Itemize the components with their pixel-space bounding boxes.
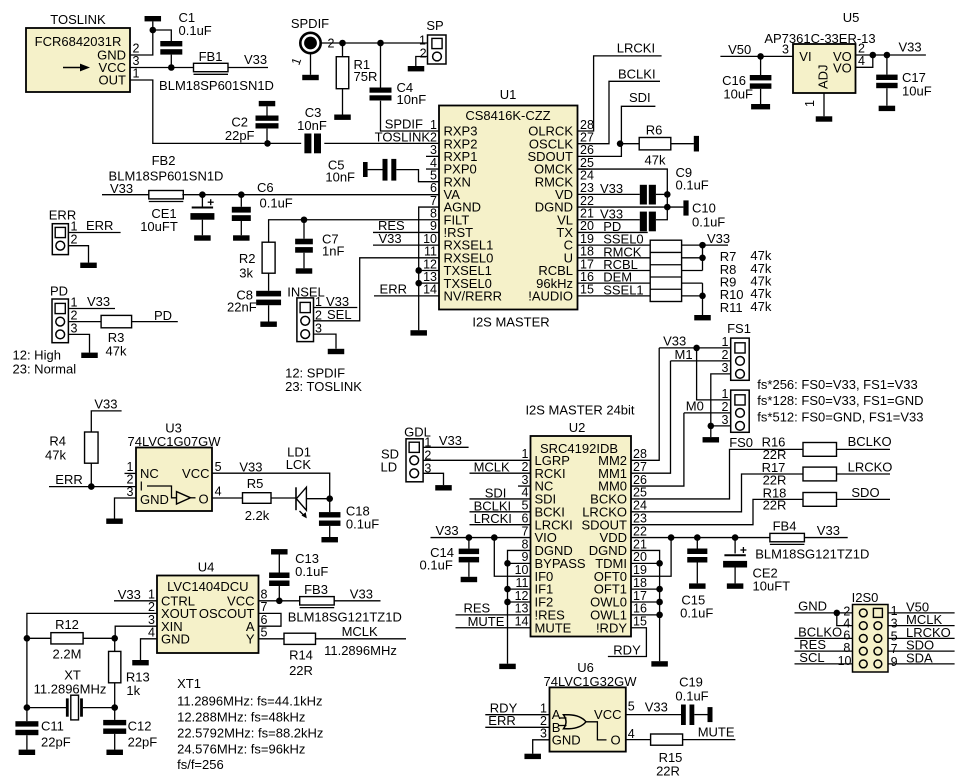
svg-text:SDA: SDA [906, 650, 933, 665]
svg-text:V33: V33 [87, 294, 110, 309]
wire U1 pin8 FILT to R2 [269, 220, 439, 242]
U1 pin 15 label !AUDIO [528, 288, 573, 303]
net label ERR at U1 pin14 [380, 282, 407, 297]
U1 pin 8 label FILT [444, 212, 470, 227]
net label V50 [728, 42, 751, 57]
junction crystal left [24, 704, 31, 711]
junction CE2 on VDD [732, 534, 739, 541]
pin number 3 of PD conn [71, 321, 78, 335]
net label SCL at I2S0 [799, 650, 824, 665]
U1 pin 28 label OLRCK [528, 124, 573, 139]
svg-text:5: 5 [628, 699, 635, 713]
wire U2 pin23 SDOUT up to R18 [631, 499, 803, 524]
net label RES at U2 pin13 [464, 600, 491, 615]
FB4 part number [755, 547, 869, 562]
wire U1 pin14 ERR [374, 295, 439, 297]
net label RDY at U2 pin15 [613, 643, 641, 658]
svg-text:1: 1 [722, 387, 729, 401]
pin number 1 of U5 rotated [803, 100, 817, 107]
wire FB3 to V33 [334, 600, 380, 602]
resistor label R9 [720, 274, 737, 289]
ground below C7 [303, 253, 305, 269]
U1 pin number 4 [430, 156, 437, 170]
U1 pin 21 label VL [557, 212, 573, 227]
pin number 1 of M0 [722, 387, 729, 401]
U6 gate output wire [586, 722, 607, 740]
capacitor C5 [383, 159, 388, 181]
svg-text:3: 3 [782, 43, 789, 57]
ground below R1 [342, 89, 344, 115]
junction rail row12 [504, 599, 511, 606]
wire R3 to PD net [132, 321, 178, 323]
wire PD pin1 to V33 [68, 308, 115, 310]
U4 pin number 6 [261, 613, 268, 627]
junction FS1 pin1 to M0 pin1 [693, 345, 700, 352]
wire I2S0 right row 2 MCLK [888, 625, 955, 627]
junction V33 rail row19 [699, 242, 706, 249]
pin number 2 of I2S0 [843, 604, 850, 618]
svg-text:4: 4 [148, 626, 155, 640]
U3 part name 74LVC1G07GW [128, 434, 222, 449]
net label LRCKO at I2S0 [906, 625, 951, 640]
capacitor C8 [256, 291, 281, 297]
svg-text:12.288MHz: fs=48kHz: 12.288MHz: fs=48kHz [177, 710, 305, 725]
svg-text:SPDIF: SPDIF [291, 16, 329, 31]
pin number 2 of GDL [424, 448, 431, 462]
junction OFT0 riser on VDD [668, 534, 675, 541]
U1 pin 16 label 96kHz [536, 276, 573, 291]
svg-text:ERR: ERR [488, 713, 515, 728]
U1 pin 9 label !RST [444, 225, 474, 240]
net label V33 at FB1 [244, 52, 267, 67]
net label MUTE at U2 pin14 [468, 614, 505, 629]
wire C5 to U1 pin5 [396, 170, 439, 182]
wire TOSLINK pin3 VCC to FB1 [130, 67, 194, 69]
net label SSEL1 [603, 282, 643, 297]
I2S0 left pin circle row 5 [859, 660, 867, 668]
svg-text:fs*256: FS0=V33, FS1=V33: fs*256: FS0=V33, FS1=V33 [757, 377, 917, 392]
U1 pin number 23 [580, 181, 594, 195]
svg-text:4: 4 [215, 485, 222, 499]
junction GND to pin4 [834, 610, 841, 617]
I2S0 left pin circle row 3 [859, 635, 867, 643]
wire M0 to pin2 [684, 412, 731, 414]
svg-text:14: 14 [515, 615, 529, 629]
U1 pin 13 label TXSEL0 [444, 276, 492, 291]
I2S0 right pin circle row 4 [874, 647, 882, 655]
pin number 2 of SPDIF [328, 37, 335, 51]
ground below C12 [114, 734, 116, 750]
ground below C15 [696, 563, 698, 584]
svg-text:1: 1 [71, 296, 78, 310]
junction CE1/VA line [199, 191, 206, 198]
regulator U5 body [793, 44, 856, 93]
U2 pin number 21 [633, 537, 647, 551]
capacitor C7 [303, 220, 305, 239]
svg-text:1: 1 [722, 335, 729, 349]
resistor R5 [243, 493, 272, 504]
I2S0 left pin circle row 4 [859, 647, 867, 655]
wire U5 pin1 ADJ to ground [823, 93, 825, 116]
capacitor C4 [380, 43, 382, 88]
svg-text:!RDY: !RDY [596, 620, 627, 635]
wire R15 to MUTE [683, 739, 736, 741]
svg-text:23: TOSLINK: 23: TOSLINK [285, 379, 362, 394]
wire stack row15 [682, 295, 703, 297]
wire U3 pin4 to R5 [212, 497, 243, 499]
wire C4 to U1 pin1 SPDIF [381, 101, 440, 131]
net label SDI [629, 90, 651, 105]
svg-text:3: 3 [71, 321, 78, 335]
wire U1 pin28 to LRCKI [578, 56, 662, 131]
wire V33 branch down to U2 pin10 IF0 [494, 538, 530, 577]
net label V33 at FB3 [350, 587, 373, 602]
U2 pin number 4 [522, 486, 529, 500]
ground below CE1 [201, 220, 203, 236]
U4 pin number 2 [148, 600, 155, 614]
svg-text:2: 2 [722, 348, 729, 362]
net label M0 [686, 398, 704, 413]
svg-text:2.2M: 2.2M [53, 647, 82, 662]
svg-text:O: O [610, 732, 620, 747]
connector ERR label [49, 208, 76, 223]
net label TOSLINK at U1 pin2 [375, 129, 431, 144]
connector ERR body [52, 224, 68, 255]
ground above C1 [145, 16, 162, 21]
wire GND down to pin4 row [837, 613, 853, 626]
svg-text:SDO: SDO [851, 485, 879, 500]
connector I2S0 label [852, 590, 879, 605]
wire GND to I2S0 pin2 [795, 612, 853, 614]
INSEL pin1 square [300, 302, 310, 312]
junction R12 left [24, 635, 31, 642]
resistor R18 [803, 493, 837, 507]
SPDIF RCA connector [300, 33, 320, 53]
svg-text:V33: V33 [645, 700, 668, 715]
U2 pin number 14 [515, 615, 529, 629]
svg-text:1: 1 [803, 100, 817, 107]
pin number 1 of U6 [540, 702, 547, 716]
wire U1 pin20 PD [578, 231, 648, 233]
wire R17 to LRCKO [837, 473, 891, 475]
net label BCLKI [618, 67, 656, 82]
GDL pin3 circle [410, 469, 419, 478]
capacitor C10 bar [683, 200, 688, 215]
capacitor below C9 [640, 212, 647, 232]
ground below CE2 [734, 568, 736, 584]
svg-text:ERR: ERR [380, 282, 407, 297]
wire BCLKO to I2S0 pin6 [795, 637, 853, 639]
net label SPDIF at U1 pin1 [385, 117, 423, 132]
net label SDA at I2S0 [906, 650, 933, 665]
connector SP label [426, 18, 443, 33]
ground below C11 [26, 735, 28, 749]
buffer U3 body [136, 448, 212, 512]
svg-text:V33: V33 [118, 587, 141, 602]
net label LRCKO [848, 460, 893, 475]
U1 part name [465, 108, 550, 123]
U4 left pin label CTRL [161, 593, 195, 608]
wire stack row17 [682, 269, 703, 271]
U6 internal OR gate [559, 715, 586, 729]
svg-text:I2S MASTER 24bit: I2S MASTER 24bit [525, 403, 634, 418]
wire U2 pin5 BCKI [470, 511, 531, 513]
svg-text:VCC: VCC [182, 466, 209, 481]
junction pin4/pin2 [870, 52, 877, 59]
pin number 1 of SP [419, 34, 426, 48]
pin number 2 of ERR conn [71, 233, 78, 247]
wire TOSLINK pin1 OUT down to TOSLINK net line [130, 80, 301, 143]
svg-text:VO: VO [833, 61, 852, 76]
capacitor C6 [240, 195, 242, 207]
pin number 2 of U5 [858, 42, 865, 56]
wire U2 pin2 RCKI MCLK [470, 472, 531, 474]
svg-text:2: 2 [71, 233, 78, 247]
capacitor C5 terminator bar [363, 162, 368, 177]
ground at GDL pin3 [435, 485, 452, 490]
FS1 pin2 circle [736, 357, 745, 366]
U2 pin 5 label BCKI [535, 504, 565, 519]
U4 pin number 4 [148, 626, 155, 640]
wire C19 to terminator [694, 714, 707, 716]
U1 pin number 17 [580, 257, 594, 271]
net label LRCKI [617, 41, 655, 56]
junction pin12 on AGND rail [415, 267, 422, 274]
FS1 pin1 square [735, 343, 745, 353]
U2 pin 23 label SDOUT [582, 517, 628, 532]
svg-text:U2: U2 [569, 420, 586, 435]
svg-text:TOSLINK: TOSLINK [375, 129, 431, 144]
net label MCLK at I2S0 [906, 612, 942, 627]
svg-text:0.1uF: 0.1uF [692, 215, 725, 230]
connector PD label [50, 284, 68, 299]
wire V33 rail top [703, 244, 729, 246]
svg-text:0.1uF: 0.1uF [260, 195, 293, 210]
pin number 1 of I2S0 [891, 604, 898, 618]
svg-text:Y: Y [246, 631, 255, 646]
U1 pin 20 label TX [556, 225, 573, 240]
junction C14 [466, 534, 473, 541]
net label V33 at R7 rail [707, 231, 730, 246]
wire I2S0 right row 4 SDO [888, 650, 955, 652]
pin number 1 of FS1 [722, 335, 729, 349]
capacitor C12 [114, 708, 116, 720]
wire U1 pin7 AGND to ground rail [419, 207, 439, 330]
U2 pin3 stub [518, 485, 531, 487]
svg-text:V33: V33 [94, 397, 117, 412]
pin number 3 of GDL [424, 461, 431, 475]
wire U1 pin21 V33 to lower cap [578, 219, 640, 221]
junction right rail row20 [656, 560, 663, 567]
U4 pin number 1 [148, 588, 155, 602]
ferrite bead FB3 [300, 597, 335, 605]
svg-text:I2S0: I2S0 [852, 590, 879, 605]
wire ERR pin2 to ground [68, 246, 88, 263]
svg-text:VCC: VCC [594, 707, 621, 722]
svg-text:3: 3 [722, 361, 729, 375]
svg-text:V33: V33 [817, 523, 840, 538]
PD pin1 square [55, 303, 65, 313]
U2 pin 9 label BYPASS [535, 556, 586, 571]
orgate U6 label [577, 660, 594, 675]
svg-text:V33: V33 [436, 523, 459, 538]
wire U2 pin27 MM1 up [631, 361, 671, 473]
wire V33 to U4 pin1 CTRL [114, 600, 157, 602]
ground at U4 pin4 [132, 660, 149, 665]
capacitor C9 [640, 185, 647, 205]
svg-text:75R: 75R [354, 69, 378, 84]
M0 pin2 circle [736, 409, 745, 418]
FB1 part number BLM18SP601SN1D [159, 78, 274, 93]
junction SPDIF/C4 [377, 40, 384, 47]
svg-text:LVC1404DCU: LVC1404DCU [167, 579, 248, 594]
net label RCBL [603, 257, 638, 272]
wire stack row19 to V33 rail [682, 244, 703, 246]
U1 pin number 27 [580, 130, 594, 144]
net label FS0 [729, 435, 753, 450]
capacitor C14 [468, 538, 470, 549]
net label RDY at U6 [490, 700, 518, 715]
value 47k of R8 [750, 261, 771, 276]
pin number 2 of PD conn [71, 309, 78, 323]
ground below resistor stack [694, 315, 711, 320]
buffer U3 label [165, 421, 182, 436]
wire U2 pin28 MM2 up to V33 [631, 348, 659, 460]
pin number 3 of FS1 [722, 361, 729, 375]
svg-text:24.576MHz: fs=96kHz: 24.576MHz: fs=96kHz [177, 742, 305, 757]
note fs*512 [757, 409, 923, 424]
U1 pin number 13 [423, 270, 437, 284]
svg-text:I2S MASTER: I2S MASTER [472, 315, 549, 330]
wire R6 to terminator [671, 143, 694, 145]
resistor label R10 [720, 287, 744, 302]
svg-text:10: 10 [838, 654, 852, 668]
resistor R1 [342, 43, 344, 57]
ground at SP pin2 [408, 66, 425, 71]
FB3 part number [288, 609, 402, 624]
wire C1 bottom to VCC line [170, 55, 172, 68]
value 47k of R7 [750, 248, 771, 263]
op-amp U1 CS8416K-CZZ body [439, 106, 578, 310]
U2 pin 3 label NC [535, 479, 554, 494]
wire U6 pin4 to R15 [626, 739, 651, 741]
U2 pin 6 label LRCKI [535, 517, 573, 532]
terminator bar at C19 [708, 707, 713, 722]
junction at C1/GND [150, 27, 157, 34]
U1 pin number 22 [580, 194, 594, 208]
svg-text:ERR: ERR [86, 218, 113, 233]
net label BCLKO at I2S0 [798, 624, 842, 639]
svg-text:0.1uF: 0.1uF [675, 689, 708, 704]
svg-text:15: 15 [633, 615, 647, 629]
U2 pin number 15 [633, 615, 647, 629]
svg-text:R14: R14 [289, 648, 313, 663]
junction crystal right [111, 704, 118, 711]
wire U2 pin21 DGND to right rail [631, 550, 660, 661]
U2 pin number 11 [516, 576, 529, 590]
svg-text:OUT: OUT [99, 73, 127, 88]
wire ERR to U6 pin2 [485, 726, 549, 728]
svg-text:5: 5 [215, 460, 222, 474]
svg-text:10uFT: 10uFT [753, 579, 791, 594]
U1 pin 10 label RXSEL1 [444, 238, 494, 253]
junction R4/ERR [88, 483, 95, 490]
svg-text:!AUDIO: !AUDIO [528, 288, 573, 303]
pin number 2 of INSEL [315, 308, 322, 322]
svg-text:SSEL1: SSEL1 [603, 282, 643, 297]
net label DEM [603, 270, 632, 285]
svg-text:10uFT: 10uFT [140, 219, 178, 234]
wire stack row18 [682, 257, 703, 259]
junction right rail row18 [656, 586, 663, 593]
capacitor C15 [696, 538, 698, 549]
junction rail row15 [699, 293, 706, 300]
svg-text:LD: LD [380, 459, 397, 474]
wire U6 pin5 VCC to C19 [626, 714, 681, 716]
wire U2 pin18 OFT1 to rail [631, 588, 660, 590]
pin number 1 of GDL [424, 435, 431, 449]
wire SP pin2 to ground [416, 57, 428, 67]
ground at INSEL pin3 [328, 349, 345, 354]
U1 pin number 8 [430, 207, 437, 221]
svg-text:10nF: 10nF [325, 169, 355, 184]
svg-text:U6: U6 [577, 660, 594, 675]
net label PD [154, 308, 172, 323]
U2 pin number 2 [522, 460, 529, 474]
U2 pin number 13 [515, 602, 529, 616]
svg-text:RDY: RDY [613, 643, 641, 658]
svg-text:SEL: SEL [327, 307, 352, 322]
ground at U3 pin3 [106, 519, 123, 524]
net label V33 at U1 pin23 [600, 181, 623, 196]
svg-text:MUTE: MUTE [698, 725, 735, 740]
pin number 4 of I2S0 [843, 617, 850, 631]
U4 left pin label XIN [161, 619, 183, 634]
svg-text:TOSLINK: TOSLINK [50, 12, 106, 27]
net label RES at I2S0 [799, 637, 826, 652]
net label MCLK at U2 pin2 [474, 460, 510, 475]
svg-text:3k: 3k [239, 266, 253, 281]
wire U2 pin12 IF2 to rail [508, 601, 531, 603]
wire U4 pin4 GND to ground [141, 639, 158, 660]
svg-text:V33: V33 [378, 231, 401, 246]
svg-text:22R: 22R [289, 663, 313, 678]
connector FS1 label [727, 321, 751, 336]
svg-text:SDI: SDI [629, 90, 651, 105]
wire U1 pin15 to resistor stack [578, 295, 651, 297]
net label V33 at U1 pin21 [600, 207, 623, 222]
svg-text:V33: V33 [110, 181, 133, 196]
net label V33 at GDL [439, 433, 462, 448]
U2 pin 12 label IF2 [535, 595, 554, 610]
U2 pin number 27 [633, 460, 647, 474]
U2 pin number 8 [522, 537, 529, 551]
FS1 pin3 circle [736, 370, 745, 379]
U2 pin number 19 [633, 563, 647, 577]
svg-text:3: 3 [315, 322, 322, 336]
I2S0 right pin circle row 5 [874, 660, 882, 668]
ERR pin2 circle [56, 241, 65, 250]
wire C5 bar to plates [368, 169, 383, 171]
net label V33 at U4 pin1 [118, 587, 141, 602]
U4 pin number 3 [148, 613, 155, 627]
pin number 6 of I2S0 [843, 628, 850, 642]
wire U2 pin17 OWL0 to rail [631, 601, 660, 603]
wire U2 pin22 VDD to FB4 [631, 537, 770, 539]
svg-text:0.1uF: 0.1uF [420, 558, 453, 573]
ground above C2 [259, 101, 276, 106]
svg-text:9: 9 [891, 655, 898, 669]
